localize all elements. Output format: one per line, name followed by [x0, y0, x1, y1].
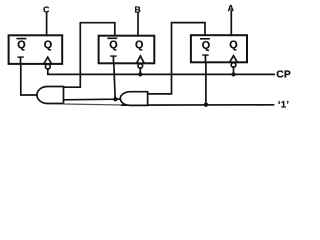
wire: T input riser U2 [114, 63, 115, 99]
wire: U3 clock bubble to CP line [233, 67, 235, 74]
svg-text:Q: Q [202, 39, 210, 51]
svg-text:T: T [17, 56, 24, 67]
svg-text:C: C [43, 4, 49, 14]
wire: U2 Qbar up-over to AND gate G1 top input [64, 23, 115, 88]
svg-text:T: T [110, 55, 117, 66]
svg-text:Q: Q [229, 39, 237, 51]
flip-flop U1 (output C) box [9, 35, 63, 64]
wire: label B to U2 Q output [137, 13, 139, 36]
wire: logic 1 line to U3 T input [205, 62, 207, 104]
svg-text:T: T [202, 53, 209, 64]
svg-text:B: B [134, 5, 140, 15]
junction: U2 clock on CP line [138, 72, 142, 76]
wire: label C to U1 Q output [46, 13, 48, 35]
svg-text:Q: Q [109, 39, 117, 51]
flip-flop U2 (output B) box [99, 36, 155, 64]
wire: U3 Qbar up-over to AND gate G2 top input [148, 23, 205, 94]
svg-text:Q: Q [135, 39, 143, 51]
junction: U3 T riser on logic 1 line [204, 103, 208, 107]
logic 1 line [122, 104, 274, 106]
wire: label A to U3 Q output [230, 11, 232, 35]
clock edge triangle U1 [44, 57, 52, 64]
svg-text:A: A [228, 3, 234, 13]
wire: G1 output to U1 T input [21, 64, 37, 95]
wire: U2 clock bubble to CP line [139, 68, 141, 74]
clock edge triangle U3 [230, 56, 238, 63]
junction: G2 output / U2 T riser [113, 97, 117, 101]
AND gate G2 (drives U2 T input) [120, 92, 147, 106]
logic 1 line faint left segment [64, 104, 123, 105]
svg-text:‘1’: ‘1’ [278, 100, 289, 110]
clock bubble U2 [138, 64, 143, 69]
clock edge triangle U2 [137, 56, 145, 63]
junction: U3 clock on CP line [231, 72, 235, 76]
CP clock line [48, 69, 274, 75]
flip-flop U3 (output A) box [191, 35, 247, 62]
clock bubble U1 [45, 64, 50, 69]
svg-text:CP: CP [276, 70, 291, 81]
AND gate G1 (drives U1 T input) [37, 87, 64, 104]
wire: G2 output to U2 T input and G1 middle input [64, 98, 121, 101]
svg-text:Q: Q [17, 39, 25, 51]
svg-text:Q: Q [44, 39, 52, 51]
clock bubble U3 [231, 63, 236, 68]
